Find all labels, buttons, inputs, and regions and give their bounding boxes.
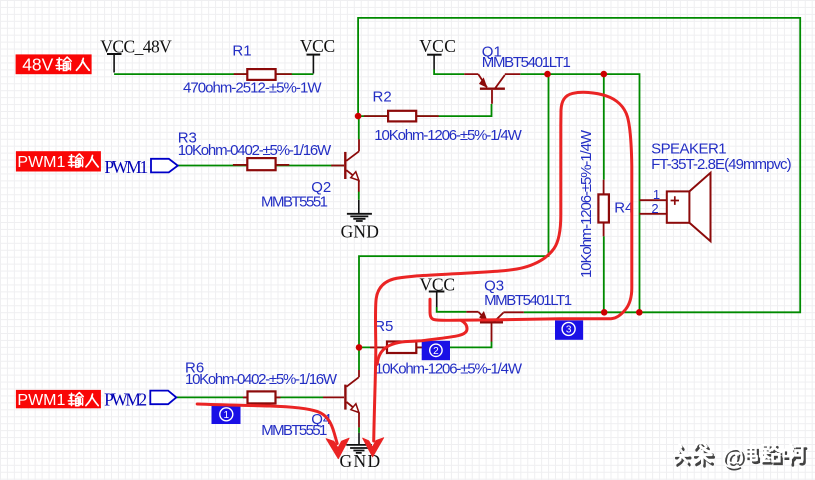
svg-text:FT-35T-2.8E(49mmpvc): FT-35T-2.8E(49mmpvc) [651,156,792,173]
svg-text:SPEAKER1: SPEAKER1 [651,140,727,157]
svg-text:VCC: VCC [419,36,456,56]
svg-text:1: 1 [224,410,230,421]
svg-text:PWM2: PWM2 [104,389,147,409]
svg-text:10Kohm-1206-±5%-1/4W: 10Kohm-1206-±5%-1/4W [374,127,522,144]
svg-text:VCC_48V: VCC_48V [100,36,172,56]
svg-text:MMBT5551: MMBT5551 [261,193,328,210]
svg-text:@: @ [722,444,744,470]
svg-text:10Kohm-0402-±5%-1/16W: 10Kohm-0402-±5%-1/16W [185,371,338,388]
svg-text:R1: R1 [232,43,251,60]
svg-text:48V: 48V [22,55,53,75]
svg-text:2: 2 [651,201,658,216]
svg-text:PWM1: PWM1 [17,392,65,409]
svg-text:MMBT5401LT1: MMBT5401LT1 [484,292,572,309]
svg-text:470ohm-2512-±5%-1W: 470ohm-2512-±5%-1W [183,79,322,96]
svg-text:GND: GND [341,221,379,241]
svg-text:10Kohm-1206-±5%-1/4W: 10Kohm-1206-±5%-1/4W [375,361,523,378]
svg-text:1: 1 [653,187,660,202]
svg-text:10Kohm-1206-±5%-1/4W: 10Kohm-1206-±5%-1/4W [578,129,595,278]
svg-text:VCC: VCC [300,36,335,56]
svg-text:MMBT5551: MMBT5551 [261,422,327,439]
svg-text:MMBT5401LT1: MMBT5401LT1 [482,54,571,71]
svg-text:10Kohm-0402-±5%-1/16W: 10Kohm-0402-±5%-1/16W [178,142,332,159]
svg-text:PWM1: PWM1 [17,154,65,171]
svg-text:VCC: VCC [420,275,456,295]
svg-text:PWM1: PWM1 [104,157,148,177]
svg-text:3: 3 [566,325,572,336]
svg-text:R2: R2 [373,88,392,105]
svg-text:2: 2 [433,346,439,357]
